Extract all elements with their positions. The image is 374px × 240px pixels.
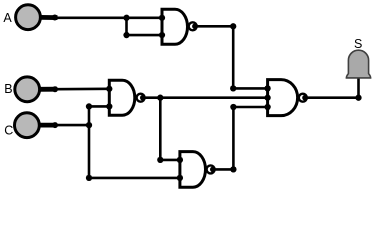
node C stub end (52, 122, 58, 128)
wire C to U2 bottom input (89, 105, 109, 108)
wire U1 output horizontal (194, 25, 233, 28)
NAND gate U1 (A inverter) (162, 9, 198, 44)
node U1 input bottom (159, 32, 165, 38)
node U1 output corner (230, 23, 236, 29)
svg-text:A: A (3, 11, 12, 25)
node U3 output corner (230, 166, 236, 172)
node U2 output branch (157, 95, 163, 101)
NAND gate U2 (B NAND C) (109, 80, 146, 115)
wire U2 output branch vertical down (159, 98, 162, 160)
node A split bottom (123, 32, 129, 38)
input connector C (15, 113, 58, 138)
node branch corner (157, 157, 163, 163)
wire U3 output horizontal (212, 168, 234, 171)
node C branch corner (86, 103, 92, 109)
wire U4 output to lamp node (303, 96, 359, 99)
node U2 input top (106, 86, 112, 92)
wire U3 to U4 bottom input (233, 106, 267, 109)
wire A to U1 bottom input (127, 34, 163, 37)
wire U3 output vertical up (232, 107, 235, 169)
node C junction (86, 122, 92, 128)
wire C to junction (39, 124, 89, 127)
wire U2 output to U4 middle input (141, 96, 268, 99)
node U3 input top (177, 157, 183, 163)
node C lower corner (86, 175, 92, 181)
node U3 feed corner (230, 104, 236, 110)
NAND gate U4 (3-input output gate) (268, 80, 308, 116)
svg-text:B: B (4, 82, 12, 96)
NAND gate U3 (bottom) (180, 152, 216, 188)
node U4 input top (264, 85, 270, 91)
wire A from input to split node (40, 16, 127, 19)
node U2 input bottom (106, 103, 112, 109)
wire B to U2 top input (39, 88, 109, 91)
wire lamp node vertical up (357, 77, 360, 98)
wire A to U1 top input (127, 16, 163, 19)
node NOT-A corner (230, 85, 236, 91)
svg-text:S: S (354, 37, 362, 51)
wire branch to U3 top input (160, 159, 180, 162)
input connector A (16, 5, 58, 30)
node A split top (123, 15, 129, 21)
node U3 input bottom (177, 175, 183, 181)
wire NOT-A to U4 top input (233, 87, 267, 90)
input connector B (15, 77, 57, 102)
svg-text:C: C (4, 124, 13, 138)
node U4 input middle (264, 95, 270, 101)
wire C to U3 bottom input (89, 177, 180, 180)
lamp S (346, 50, 370, 78)
node A stub end (52, 15, 58, 21)
wire C junction vertical (88, 106, 91, 177)
node B stub end (52, 86, 58, 92)
wire U1 output vertical down (232, 26, 235, 88)
node lamp connection (355, 95, 361, 101)
node U1 input top (159, 15, 165, 21)
node U4 input bottom (264, 104, 270, 110)
wire A split vertical (125, 18, 128, 35)
